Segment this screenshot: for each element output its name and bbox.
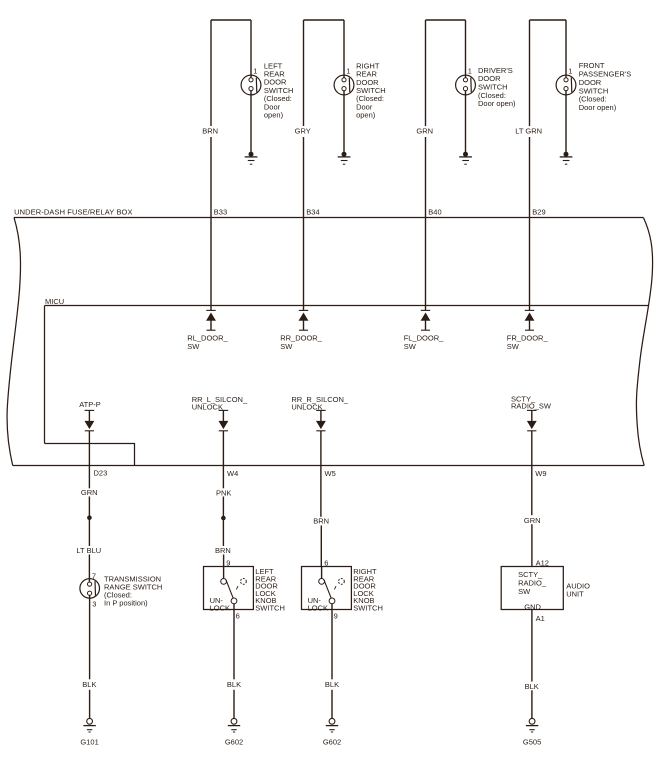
switch name label driver's door switch — [478, 66, 516, 108]
wire W9 out of box — [531, 431, 533, 515]
wire BLK lower — [331, 690, 333, 719]
svg-text:UNLOCK: UNLOCK — [192, 402, 223, 411]
wire top loop B29 — [530, 19, 567, 21]
svg-text:LOCK: LOCK — [308, 603, 328, 612]
svg-text:open): open) — [264, 111, 284, 120]
svg-text:GRN: GRN — [524, 516, 541, 525]
svg-text:3: 3 — [92, 600, 96, 609]
signal label FR_DOOR_SW — [507, 334, 549, 351]
under-dash fuse/relay box top edge — [14, 217, 643, 219]
svg-text:LT BLU: LT BLU — [76, 546, 101, 555]
door switch driver's door switch — [456, 75, 476, 95]
wire top loop B33 — [211, 19, 251, 21]
svg-text:W4: W4 — [227, 469, 238, 478]
junction node col1 — [87, 515, 92, 520]
svg-text:B34: B34 — [306, 208, 319, 217]
left rear door lock knob switch contacts and blade — [221, 579, 247, 604]
svg-text:6: 6 — [324, 559, 328, 568]
wire W5 out of box — [320, 431, 322, 517]
wire switch to ground — [343, 91, 345, 154]
svg-text:SCTY_: SCTY_ — [518, 570, 543, 579]
MICU input terminal FR_DOOR_SW — [525, 310, 534, 330]
wire into left rear door lock knob switch — [223, 566, 225, 578]
svg-text:LT GRN: LT GRN — [515, 127, 542, 136]
MICU input terminal RR_DOOR_SW — [299, 310, 308, 330]
MICU bottom step edge — [45, 444, 135, 466]
svg-text:B29: B29 — [532, 208, 545, 217]
svg-text:SW: SW — [404, 342, 417, 351]
svg-text:BRN: BRN — [215, 546, 231, 555]
MICU input terminal RL_DOOR_SW — [206, 310, 215, 330]
UN-LOCK label in left rear door lock knob switch — [210, 596, 230, 613]
ground (door switch B33) — [245, 152, 258, 165]
svg-text:In P position): In P position) — [104, 599, 148, 608]
wire switch to ground — [565, 91, 567, 154]
wire out of right rear door lock knob switch — [331, 604, 333, 680]
ground (door switch B29) — [560, 152, 573, 165]
right rear door lock knob switch box — [302, 567, 352, 610]
transmission range switch label — [104, 575, 162, 608]
svg-text:1: 1 — [346, 66, 350, 75]
under-dash fuse/relay box torn left edge — [7, 218, 20, 466]
svg-text:SW: SW — [187, 342, 200, 351]
svg-text:PNK: PNK — [216, 488, 231, 497]
MICU output terminal RR_L_SILCON_ — [219, 410, 229, 430]
svg-text:SW: SW — [280, 342, 293, 351]
signal label FL_DOOR_SW — [404, 334, 444, 351]
wire switch to ground — [250, 91, 252, 154]
svg-text:SW: SW — [518, 587, 531, 596]
svg-text:ATP-P: ATP-P — [79, 400, 101, 409]
svg-text:A1: A1 — [536, 614, 545, 623]
wire switch leg — [465, 20, 467, 78]
wire GRN col4 lower — [531, 524, 533, 566]
svg-text:B40: B40 — [428, 208, 441, 217]
svg-text:RADIO_SW: RADIO_SW — [511, 402, 552, 411]
wire W4 out of box — [222, 431, 224, 489]
right rear door lock knob switch contacts and blade — [319, 579, 345, 604]
wire switch leg — [250, 20, 252, 78]
svg-text:9: 9 — [334, 611, 338, 620]
svg-text:UNDER-DASH FUSE/RELAY BOX: UNDER-DASH FUSE/RELAY BOX — [14, 208, 133, 217]
switch name label front passenger's door switch — [579, 61, 632, 112]
signal label RR_L_SILCON_ — [192, 395, 248, 411]
MICU output terminal ATP-P — [85, 410, 95, 430]
wire GRY vertical to MICU — [303, 137, 305, 310]
svg-text:1: 1 — [253, 66, 257, 75]
svg-text:D23: D23 — [94, 468, 108, 477]
MICU input terminal FL_DOOR_SW — [421, 310, 430, 330]
wire top loop B40 — [426, 19, 466, 21]
wire out of left rear door lock knob switch — [233, 604, 235, 680]
svg-text:1: 1 — [568, 66, 572, 75]
AUDIO UNIT label — [566, 581, 590, 598]
svg-text:1: 1 — [468, 66, 472, 75]
wire GRN with junction — [88, 497, 90, 547]
svg-text:G505: G505 — [523, 737, 541, 746]
wire top loop B34 — [304, 19, 345, 21]
wire GRN vertical to MICU — [425, 137, 427, 310]
svg-text:G101: G101 — [80, 737, 98, 746]
svg-text:LOCK: LOCK — [210, 603, 230, 612]
wire switch leg — [565, 20, 567, 78]
audio unit box — [501, 567, 563, 610]
svg-text:BLK: BLK — [525, 682, 539, 691]
ground G602 — [228, 718, 240, 732]
svg-text:Door open): Door open) — [579, 103, 617, 112]
svg-text:G602: G602 — [323, 737, 341, 746]
svg-text:BLK: BLK — [82, 680, 96, 689]
under-dash fuse/relay box torn right edge — [636, 218, 652, 466]
ground (door switch B34) — [338, 152, 351, 165]
switch name label left rear door switch — [264, 61, 294, 119]
wire GRN vertical upper — [425, 20, 427, 126]
svg-text:BLK: BLK — [325, 680, 339, 689]
left rear door lock knob switch name label — [255, 567, 285, 613]
wire D23 out of box — [88, 431, 90, 489]
wire BLK lower — [233, 690, 235, 719]
wire A1 to G505 — [531, 610, 533, 682]
svg-text:BRN: BRN — [202, 127, 218, 136]
MICU top edge — [45, 305, 649, 307]
switch name label right rear door switch — [356, 61, 386, 119]
svg-text:MICU: MICU — [45, 297, 64, 306]
wire to G101 — [89, 595, 91, 679]
svg-text:G602: G602 — [225, 737, 243, 746]
right rear door lock knob switch name label — [353, 567, 383, 613]
svg-text:6: 6 — [236, 611, 240, 620]
svg-text:W5: W5 — [325, 469, 336, 478]
wire into right rear door lock knob switch — [321, 566, 323, 578]
svg-text:GRN: GRN — [416, 127, 433, 136]
svg-text:GRY: GRY — [295, 127, 311, 136]
signal label SCTY_ — [511, 394, 552, 410]
svg-text:SWITCH: SWITCH — [255, 604, 285, 613]
wire PNK with junction — [222, 497, 224, 547]
wire BLK col4 lower — [531, 690, 533, 719]
signal label RL_DOOR_SW — [187, 334, 228, 351]
wire BRN vertical to MICU — [210, 137, 212, 310]
UN-LOCK label in right rear door lock knob switch — [308, 596, 328, 613]
ground G101 — [83, 718, 95, 732]
svg-text:SWITCH: SWITCH — [353, 604, 383, 613]
svg-text:Door open): Door open) — [478, 99, 516, 108]
left rear door lock knob switch box — [204, 567, 254, 610]
wire BRN col3 lower — [320, 526, 322, 567]
svg-text:BLK: BLK — [227, 680, 241, 689]
svg-text:BRN: BRN — [313, 517, 329, 526]
signal label RR_DOOR_SW — [280, 334, 323, 351]
svg-text:9: 9 — [226, 559, 230, 568]
wire LT GRN vertical to MICU — [529, 137, 531, 310]
door switch front passenger's door switch — [556, 75, 576, 95]
junction node col2 — [221, 516, 226, 521]
door switch right rear door switch — [334, 75, 354, 95]
under-dash fuse/relay box bottom edge — [13, 465, 645, 467]
wire BLK col1 lower — [89, 690, 91, 719]
svg-text:GRN: GRN — [81, 488, 98, 497]
svg-text:B33: B33 — [214, 208, 227, 217]
SCTY_RADIO_SW label — [518, 570, 547, 596]
MICU output terminal SCTY_ — [527, 410, 537, 430]
MICU output terminal RR_R_SILCON_ — [316, 410, 326, 430]
ground G602 — [326, 718, 338, 732]
svg-text:W9: W9 — [535, 469, 546, 478]
MICU left edge — [44, 306, 46, 444]
wire switch to ground — [465, 91, 467, 154]
wire LT BLU — [88, 555, 90, 582]
wire LT GRN vertical upper — [529, 20, 531, 126]
wire BRN col2 — [223, 555, 225, 567]
wire GRY vertical upper — [303, 20, 305, 126]
wire switch leg — [343, 20, 345, 78]
svg-text:GND: GND — [524, 602, 541, 611]
svg-text:SW: SW — [507, 342, 520, 351]
ground G505 — [526, 718, 538, 732]
signal label RR_R_SILCON_ — [291, 395, 349, 411]
ground (door switch B40) — [459, 152, 472, 165]
transmission range switch — [80, 579, 100, 599]
svg-text:UNIT: UNIT — [566, 590, 584, 599]
signal label ATP-P — [79, 400, 101, 409]
door switch left rear door switch — [241, 75, 261, 95]
wire BRN vertical upper — [210, 20, 212, 126]
svg-text:open): open) — [356, 111, 376, 120]
